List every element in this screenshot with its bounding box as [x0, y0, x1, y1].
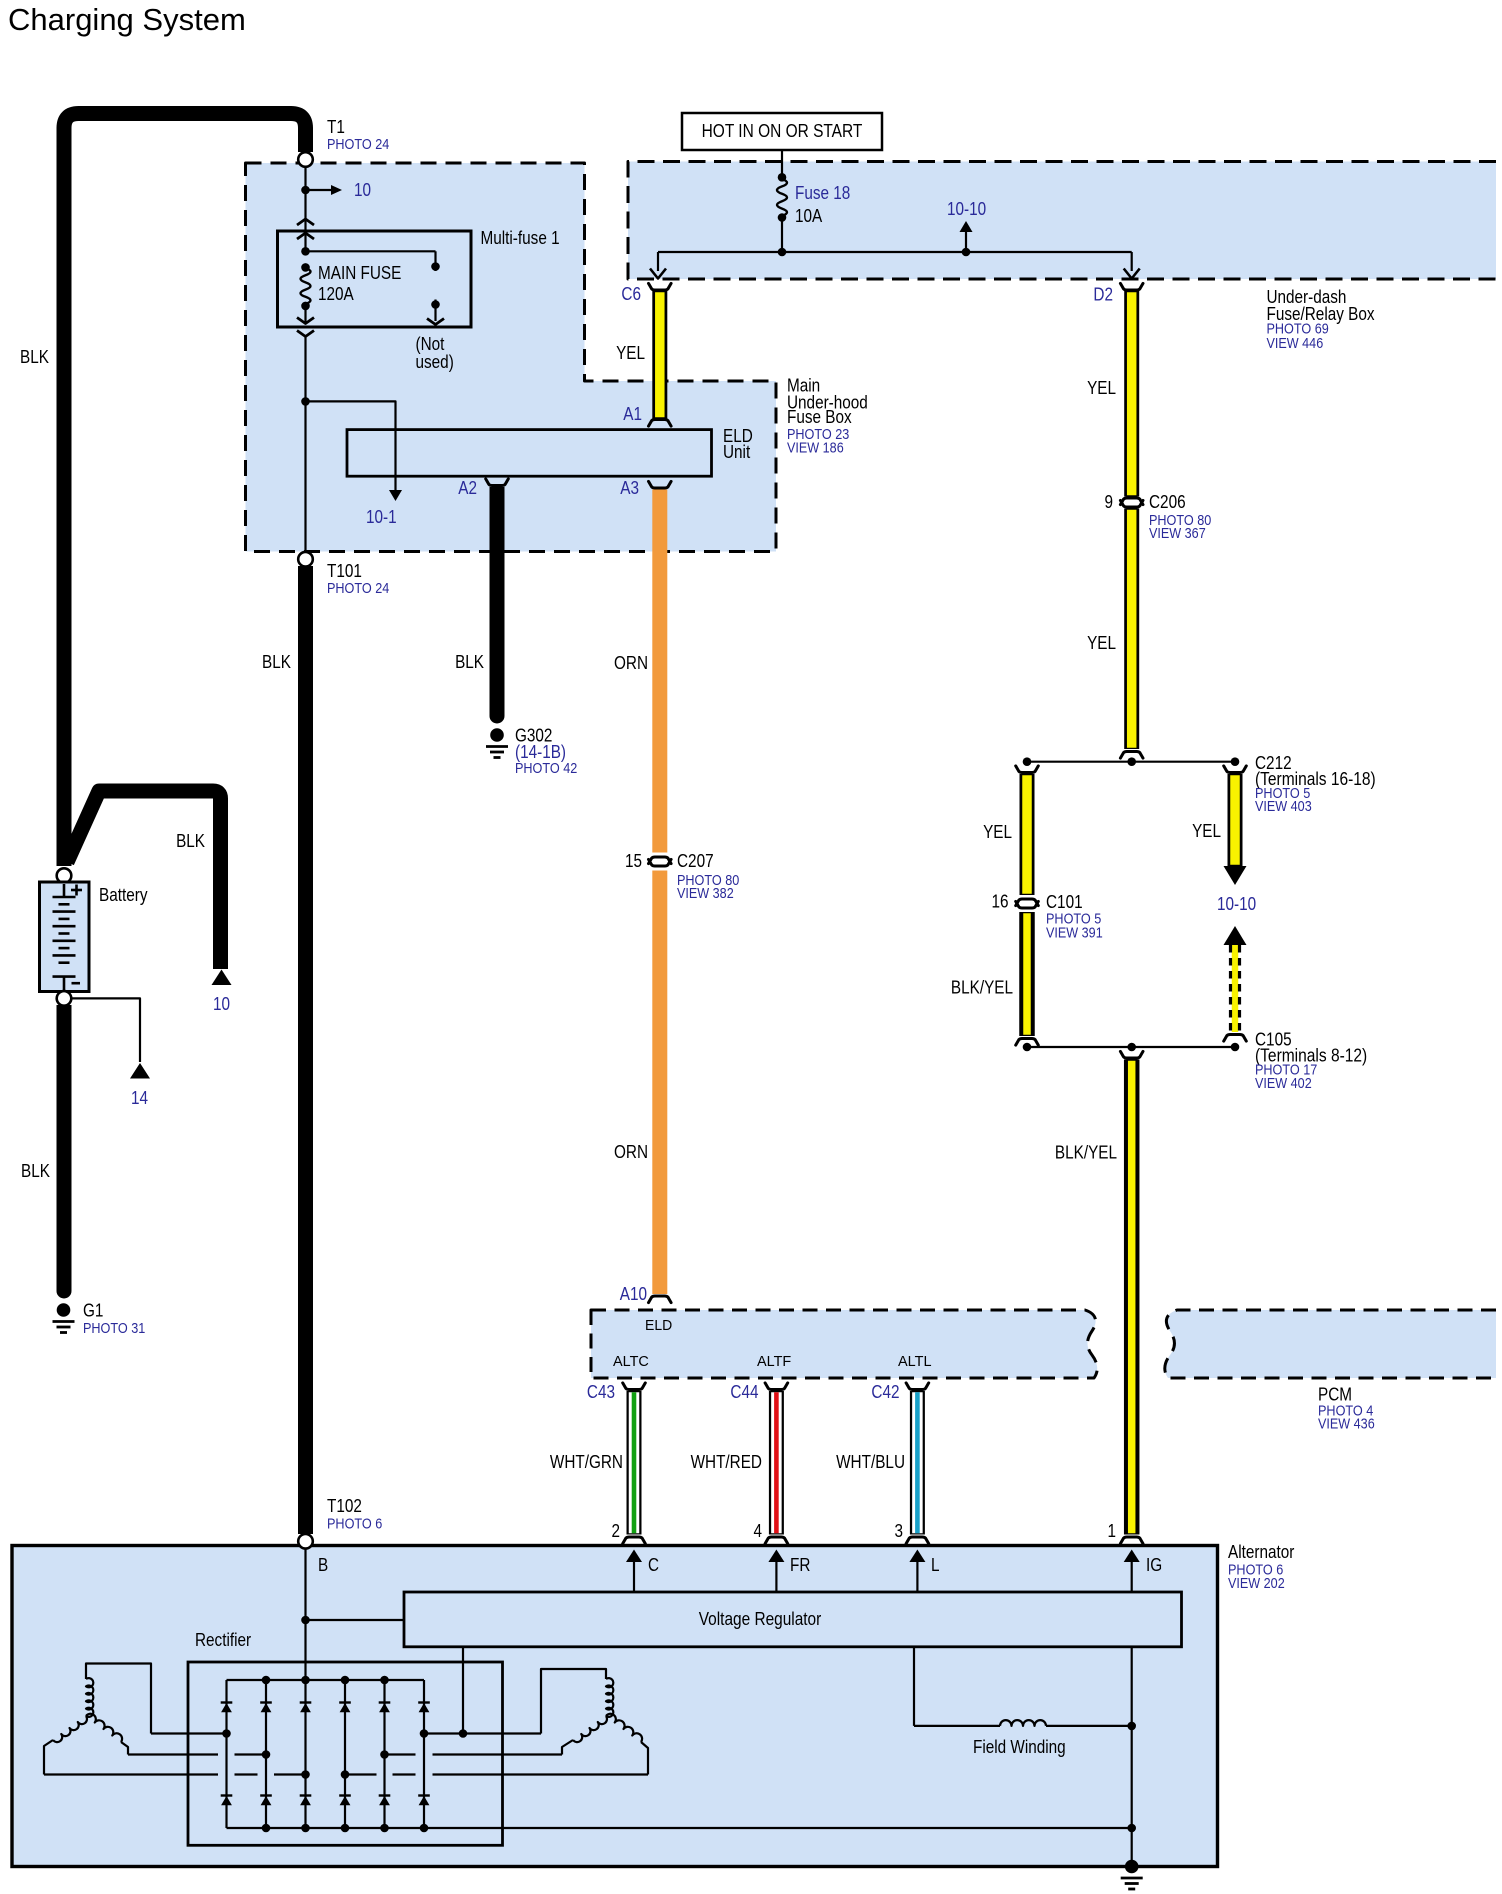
svg-text:T102: T102	[327, 1496, 362, 1516]
connector chevrons at multi-fuse bottom	[297, 331, 314, 337]
label 14 (blue)	[131, 1088, 148, 1108]
svg-text:120A: 120A	[318, 284, 354, 304]
label BLK (lower left wire)	[21, 1161, 50, 1181]
label pin IG	[1146, 1555, 1162, 1575]
svg-text:PHOTO 31: PHOTO 31	[83, 1321, 145, 1337]
wire: thick BLK battery - down to G1	[57, 1005, 72, 1291]
label BLK (T101 wire)	[262, 652, 291, 672]
label pin B	[318, 1555, 328, 1575]
PCM box (right band) with torn left edge	[1165, 1310, 1496, 1378]
wire ORN C207 to A10	[652, 871, 667, 1295]
svg-text:Voltage Regulator: Voltage Regulator	[699, 1609, 822, 1629]
phase C row	[44, 1770, 648, 1779]
label PCM / PHOTO 4 / VIEW 436	[1318, 1385, 1375, 1433]
svg-text:T101: T101	[327, 561, 362, 581]
label 16	[992, 892, 1009, 912]
svg-text:16: 16	[992, 892, 1009, 912]
svg-text:IG: IG	[1146, 1555, 1162, 1575]
label pin L	[931, 1555, 940, 1575]
svg-text:PHOTO 6: PHOTO 6	[327, 1517, 382, 1533]
connector cap C44 bottom	[765, 1537, 788, 1544]
label C105 / (Terminals 8-12) / PHOTO 17 / VIEW 402	[1255, 1030, 1367, 1093]
wire BLK/YEL C101 down	[1019, 912, 1035, 1036]
label G302 / (14-1B) / PHOTO 42	[515, 726, 577, 778]
label pin C	[648, 1555, 659, 1575]
arrow down 10-10 (solid)	[1224, 866, 1247, 885]
label ALTC (pin)	[613, 1353, 649, 1370]
svg-text:ALTF: ALTF	[757, 1353, 791, 1370]
rectifier bottom bus to ground line	[227, 1824, 1132, 1833]
svg-text:VIEW 403: VIEW 403	[1255, 799, 1312, 815]
label G1 / PHOTO 31	[83, 1301, 145, 1338]
rectifier top bus and branches	[227, 1676, 425, 1828]
rectifier lower diodes (x6)	[221, 1796, 430, 1806]
ELD control-unit box (PCM left band) with torn right edge	[591, 1310, 1097, 1378]
wire BLK A2 to G302	[490, 487, 505, 716]
svg-text:C: C	[648, 1555, 659, 1575]
pin arrow L	[909, 1550, 925, 1593]
label C206 / PHOTO 80 / VIEW 367	[1149, 492, 1211, 542]
label YEL (D2 wire)	[1087, 378, 1116, 398]
left stator winding (3-phase Y)	[44, 1664, 151, 1775]
ground G302	[486, 728, 508, 757]
label A3 (blue)	[620, 478, 639, 498]
label 1	[1108, 1521, 1117, 1541]
label YEL (right branch)	[1192, 821, 1221, 841]
off-page triangle 14	[130, 1063, 150, 1079]
label WHT/GRN	[550, 1452, 623, 1472]
wire YEL junction to C101	[1020, 774, 1035, 895]
wire: thin multi-fuse to T101	[304, 337, 306, 553]
label BLK/YEL (long IG wire)	[1055, 1143, 1117, 1163]
label Rectifier	[195, 1630, 251, 1650]
label (Not used)	[416, 334, 454, 372]
svg-text:G1: G1	[83, 1301, 103, 1321]
connector cap C212-wire top	[1224, 766, 1247, 773]
svg-text:YEL: YEL	[1087, 378, 1116, 398]
svg-text:VIEW 202: VIEW 202	[1228, 1576, 1285, 1592]
svg-text:VIEW 446: VIEW 446	[1267, 336, 1324, 352]
svg-text:BLK: BLK	[21, 1161, 50, 1181]
label 10-10 (blue, middle)	[1217, 894, 1256, 914]
connector cap IG bottom	[1120, 1537, 1143, 1544]
label BLK (upper left wire)	[20, 347, 49, 367]
wire WHT/BLU (C42)	[910, 1391, 925, 1535]
label pin 3	[895, 1521, 904, 1541]
MAIN FUSE 120A symbol	[297, 228, 314, 324]
label ORN (upper)	[614, 653, 648, 673]
label 10-1 (blue)	[366, 507, 397, 527]
label D2 (blue)	[1093, 285, 1113, 305]
label C207 / PHOTO 80 / VIEW 382	[677, 851, 739, 902]
connector C101 (in-line)	[1016, 899, 1039, 908]
ground G1	[53, 1303, 75, 1332]
not-used fuse branch	[306, 251, 445, 324]
arrow into D2	[1124, 252, 1140, 279]
svg-text:Charging System: Charging System	[8, 2, 246, 37]
wire: thick BLK battery + to off-page 10 (up over right)	[67, 791, 221, 969]
HOT IN ON OR START box	[682, 113, 882, 150]
connector cap C43 top	[623, 1383, 646, 1390]
svg-text:(Not: (Not	[416, 334, 445, 354]
svg-text:ORN: ORN	[614, 1142, 648, 1162]
label T102 / PHOTO 6	[327, 1496, 382, 1533]
label pin FR	[790, 1555, 810, 1575]
junction dots lower	[1023, 1043, 1240, 1052]
svg-text:VIEW 436: VIEW 436	[1318, 1417, 1375, 1433]
label WHT/RED	[691, 1452, 762, 1472]
label Main Under-hood Fuse Box	[787, 376, 868, 457]
svg-text:ALTC: ALTC	[613, 1353, 649, 1370]
Alternator box (large blue box, bottom)	[12, 1546, 1218, 1867]
svg-text:Alternator: Alternator	[1228, 1542, 1294, 1562]
svg-text:PHOTO 24: PHOTO 24	[327, 581, 389, 597]
label ELD Unit	[723, 426, 753, 462]
label A10 (blue)	[620, 1284, 647, 1304]
arrow up to 10-10 (top)	[960, 221, 973, 252]
svg-text:9: 9	[1105, 492, 1114, 512]
wire YEL C212 down-arrow to 10-10	[1228, 774, 1243, 866]
phase B row	[128, 1750, 562, 1759]
svg-text:BLK: BLK	[455, 652, 484, 672]
svg-text:BLK: BLK	[20, 347, 49, 367]
wire: junction bus upper (y=762)	[1027, 761, 1235, 763]
label T101 / PHOTO 24	[327, 561, 389, 597]
rectifier upper diodes (x6)	[221, 1703, 430, 1713]
label BLK (battery right wire)	[176, 831, 205, 851]
svg-text:Unit: Unit	[723, 442, 750, 462]
connector cap C6	[649, 283, 672, 290]
connector cap above junction	[1120, 752, 1143, 759]
wire: junction bus lower (y=1047)	[1027, 1046, 1235, 1048]
wire: thick BLK T101 down to T102	[298, 566, 313, 1534]
label A1 (blue)	[623, 404, 642, 424]
svg-text:Fuse Box: Fuse Box	[787, 407, 852, 427]
svg-text:C6: C6	[621, 284, 641, 304]
wire BLK/YEL junction to alternator IG	[1124, 1060, 1140, 1535]
junction to 10-1 branch	[301, 397, 310, 406]
wire: IG line through VR to ground	[1127, 1647, 1136, 1862]
svg-text:YEL: YEL	[983, 822, 1012, 842]
svg-text:C43: C43	[587, 1382, 615, 1402]
wire: thick BLK from battery + up and right to T1	[64, 114, 306, 867]
svg-text:MAIN FUSE: MAIN FUSE	[318, 263, 401, 283]
label YEL (C6 wire)	[616, 343, 645, 363]
connector cap A2	[486, 479, 509, 486]
Multi-fuse 1 box	[278, 231, 472, 327]
right stator winding (3-phase Y)	[541, 1669, 648, 1775]
svg-text:D2: D2	[1093, 285, 1113, 305]
battery - terminal (white circle)	[57, 991, 72, 1006]
label WHT/BLU	[836, 1452, 905, 1472]
label ALTL (pin)	[898, 1353, 932, 1370]
connector cap A3	[649, 481, 672, 488]
connector cap below lower bus (middle)	[1120, 1051, 1143, 1058]
svg-text:10-1: 10-1	[366, 507, 397, 527]
label 15	[625, 851, 642, 871]
pin arrow FR	[768, 1550, 784, 1593]
svg-text:C42: C42	[871, 1382, 899, 1402]
svg-text:ALTL: ALTL	[898, 1353, 932, 1370]
svg-text:3: 3	[895, 1521, 904, 1541]
wire: B pin down to rectifier	[301, 1548, 404, 1680]
svg-text:WHT/BLU: WHT/BLU	[836, 1452, 905, 1472]
svg-text:YEL: YEL	[1192, 821, 1221, 841]
label 10 (blue)	[213, 994, 230, 1014]
svg-text:L: L	[931, 1555, 940, 1575]
label ORN (lower)	[614, 1142, 648, 1162]
field winding circuit	[914, 1647, 1132, 1726]
svg-text:A2: A2	[458, 478, 477, 498]
label MAIN FUSE / 120A	[318, 263, 401, 304]
svg-text:WHT/RED: WHT/RED	[691, 1452, 762, 1472]
label ELD (pin)	[645, 1317, 672, 1334]
svg-text:2: 2	[612, 1521, 621, 1541]
svg-text:Multi-fuse 1: Multi-fuse 1	[481, 228, 560, 248]
label 10-10 (blue, top)	[947, 199, 986, 219]
svg-text:Fuse 18: Fuse 18	[795, 183, 850, 203]
svg-text:C44: C44	[730, 1382, 758, 1402]
svg-text:YEL: YEL	[1087, 633, 1116, 653]
pin arrow IG	[1124, 1550, 1140, 1593]
svg-text:HOT IN ON OR START: HOT IN ON OR START	[702, 121, 863, 141]
svg-text:PHOTO 24: PHOTO 24	[327, 137, 389, 153]
svg-text:10: 10	[213, 994, 230, 1014]
svg-text:FR: FR	[790, 1555, 810, 1575]
svg-text:A10: A10	[620, 1284, 647, 1304]
terminal T1 (white circle)	[298, 152, 313, 167]
label Under-dash Fuse/Relay Box	[1267, 287, 1375, 352]
connector C207 (in-line)	[649, 857, 672, 866]
svg-text:VIEW 391: VIEW 391	[1046, 926, 1103, 942]
svg-text:C207: C207	[677, 851, 714, 871]
connector cap above lower bus (left)	[1016, 1039, 1039, 1046]
terminal T101 (white circle)	[298, 552, 313, 567]
svg-text:B: B	[318, 1555, 328, 1575]
wire YEL C206 down to junction	[1124, 509, 1139, 750]
label C6 (blue)	[621, 284, 641, 304]
svg-text:10: 10	[354, 180, 371, 200]
label ALTF (pin)	[757, 1353, 791, 1370]
label Battery	[99, 885, 148, 905]
svg-text:YEL: YEL	[616, 343, 645, 363]
svg-text:C101: C101	[1046, 892, 1083, 912]
ELD Unit box	[347, 430, 712, 477]
label YEL (left branch)	[983, 822, 1012, 842]
svg-text:BLK/YEL: BLK/YEL	[951, 978, 1013, 998]
fuse 18 symbol	[777, 173, 787, 222]
svg-text:Rectifier: Rectifier	[195, 1630, 251, 1650]
wire: thin from battery - to off-page 14	[71, 998, 140, 1062]
svg-text:10A: 10A	[795, 206, 823, 226]
connector cap C44 top	[765, 1383, 788, 1390]
label Alternator / PHOTO 6 / VIEW 202	[1228, 1542, 1294, 1592]
svg-text:Battery: Battery	[99, 885, 148, 905]
Main Under-hood Fuse Box (dashed blue box, left)	[246, 163, 777, 552]
junction dots upper	[1023, 757, 1240, 766]
off-page triangle 10	[212, 970, 232, 986]
wire: thin fuse 18 bus	[658, 218, 1132, 257]
svg-text:14: 14	[131, 1088, 148, 1108]
pin arrow C into voltage regulator	[626, 1550, 642, 1593]
label Field Winding	[973, 1737, 1066, 1757]
Under-dash Fuse/Relay Box (dashed blue box, top right)	[628, 162, 1496, 280]
connector cap C42 top	[906, 1383, 929, 1390]
wire WHT/RED (C44)	[769, 1391, 784, 1535]
wire: C sense from VR bottom	[462, 1647, 464, 1734]
svg-text:T1: T1	[327, 117, 345, 137]
battery + terminal (white circle)	[57, 868, 72, 883]
label T1 / PHOTO 24	[327, 117, 389, 153]
svg-text:used): used)	[416, 352, 454, 372]
label Multi-fuse 1	[481, 228, 560, 248]
label BLK (A2 wire)	[455, 652, 484, 672]
svg-text:(14-1B): (14-1B)	[515, 742, 566, 762]
svg-text:VIEW 367: VIEW 367	[1149, 526, 1206, 542]
label C43 (blue)	[587, 1382, 615, 1402]
svg-text:PHOTO 42: PHOTO 42	[515, 761, 577, 777]
alternator ground	[1121, 1860, 1143, 1889]
svg-text:ORN: ORN	[614, 653, 648, 673]
svg-text:BLK/YEL: BLK/YEL	[1055, 1143, 1117, 1163]
battery symbol (box with plates)	[40, 882, 90, 992]
svg-text:A1: A1	[623, 404, 642, 424]
Rectifier box	[188, 1662, 503, 1845]
label C42 (blue)	[871, 1382, 899, 1402]
svg-text:BLK: BLK	[262, 652, 291, 672]
connector C206 (in-line)	[1120, 498, 1143, 507]
connector cap C42 bottom	[906, 1537, 929, 1544]
title: Charging System	[8, 2, 246, 37]
wire YEL C6 to A1	[652, 291, 667, 419]
svg-text:15: 15	[625, 851, 642, 871]
label C101 / PHOTO 5 / VIEW 391	[1046, 892, 1103, 942]
connector cap C101-wire top	[1016, 766, 1039, 773]
label C44 (blue)	[730, 1382, 758, 1402]
phase A row (left stator to branch1, right stator to branch6)	[151, 1729, 541, 1738]
wire BLK/YEL dashed from C105 up	[1231, 945, 1240, 1032]
label pin 4	[754, 1521, 763, 1541]
label C212 / (Terminals 16-18) / PHOTO 5 / VIEW 403	[1255, 753, 1376, 815]
svg-text:Field Winding: Field Winding	[973, 1737, 1066, 1757]
svg-text:WHT/GRN: WHT/GRN	[550, 1452, 623, 1472]
wire ORN A3 to C207	[652, 490, 667, 853]
connector cap A1	[649, 420, 672, 427]
svg-text:BLK: BLK	[176, 831, 205, 851]
label A2 (blue)	[458, 478, 477, 498]
svg-text:C206: C206	[1149, 492, 1186, 512]
Voltage Regulator box	[404, 1592, 1182, 1647]
label BLK/YEL (upper)	[951, 978, 1013, 998]
svg-text:PCM: PCM	[1318, 1385, 1352, 1405]
label 9	[1105, 492, 1114, 512]
svg-text:10-10: 10-10	[947, 199, 986, 219]
connector chevrons at multi-fuse top	[297, 219, 314, 239]
connector cap C105	[1224, 1035, 1247, 1042]
wire: thin from hot box to Fuse 18	[781, 150, 783, 178]
arrow up from C105 (dashed wire)	[1224, 926, 1247, 945]
wire YEL D2 to C206	[1124, 291, 1139, 497]
junction + arrow to 10 (blue)	[301, 180, 371, 200]
connector cap A10	[649, 1296, 672, 1303]
label Fuse 18 (blue) / 10A	[795, 183, 850, 226]
connector cap C43 bottom	[623, 1537, 646, 1544]
svg-text:VIEW 402: VIEW 402	[1255, 1076, 1312, 1092]
arrow into C6	[650, 252, 666, 279]
wire WHT/GRN (C43)	[627, 1391, 642, 1535]
svg-text:A3: A3	[620, 478, 639, 498]
svg-text:4: 4	[754, 1521, 763, 1541]
svg-text:1: 1	[1108, 1521, 1117, 1541]
wire: thin from T1 down into fuse box	[304, 167, 306, 228]
svg-text:VIEW 382: VIEW 382	[677, 886, 734, 902]
label YEL (below C206)	[1087, 633, 1116, 653]
svg-text:VIEW 186: VIEW 186	[787, 440, 844, 456]
wire: branch to off-page 10-1 (crosses ELD box)	[306, 401, 403, 501]
svg-text:10-10: 10-10	[1217, 894, 1256, 914]
connector cap D2	[1120, 283, 1143, 290]
terminal T102 (white circle)	[298, 1534, 313, 1549]
svg-text:ELD: ELD	[645, 1317, 672, 1334]
label pin 2	[612, 1521, 621, 1541]
